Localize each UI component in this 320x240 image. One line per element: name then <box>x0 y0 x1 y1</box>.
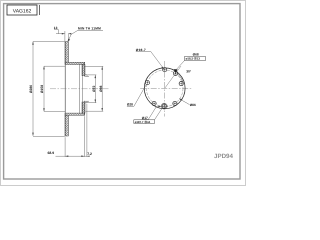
friction ring section, lower half (hatched) <box>65 115 68 136</box>
datum triangle marker <box>174 69 178 73</box>
friction ring section, upper half (hatched) <box>65 42 68 63</box>
svg-text:Ø86: Ø86 <box>190 103 196 107</box>
ring outer face edge, upper <box>67 42 69 63</box>
ring outer face edge, lower <box>67 115 69 136</box>
30 degree angle arc <box>177 74 183 83</box>
bolt circle (dashed) <box>146 70 183 107</box>
svg-text:Ø98: Ø98 <box>99 85 103 92</box>
mounting flange, upper (hatched) <box>82 65 85 76</box>
hat cylinder wall, lower (hatched) <box>65 113 85 115</box>
vertical centerline <box>164 61 166 117</box>
angled hole axis line <box>165 66 181 88</box>
svg-text:⌀187.7 Ⓝ44: ⌀187.7 Ⓝ44 <box>135 120 151 124</box>
horizontal centerline <box>140 88 191 90</box>
locating hole at 6 o'clock (double circle) <box>161 103 167 109</box>
feature control frame Ø187.7 with leader <box>134 108 163 124</box>
section axis centerline <box>50 88 109 90</box>
svg-text:Ø280: Ø280 <box>29 85 33 93</box>
dimension Ø98 hat inner diameter <box>85 66 103 111</box>
locating hole horizontal centerline <box>160 105 168 107</box>
drawing border frame <box>4 4 240 179</box>
svg-text:68.9: 68.9 <box>48 151 55 155</box>
svg-text:Ø28: Ø28 <box>127 103 133 107</box>
pilot step, upper <box>85 75 89 77</box>
bolt hole at 144 deg <box>173 101 177 105</box>
svg-text:30°: 30° <box>186 69 192 73</box>
label Ø98.7 bolt circle diameter with leader <box>136 48 164 70</box>
svg-text:⌀18.2 Ⓐ13: ⌀18.2 Ⓐ13 <box>186 57 201 61</box>
bolt hole at 288 deg <box>145 81 149 85</box>
svg-text:7.2: 7.2 <box>87 152 92 156</box>
page edge <box>1 1 246 186</box>
bolt hole at 216 deg <box>152 101 156 105</box>
pilot step, lower <box>85 101 89 103</box>
hat outer circle <box>144 68 185 109</box>
label Ø17 locating hole with leader <box>142 106 162 120</box>
hat cylinder wall, upper (hatched) <box>65 62 85 64</box>
svg-text:VAG162: VAG162 <box>13 9 32 15</box>
label Ø28 hole size with leader <box>127 85 146 107</box>
bolt hole at 72 deg <box>179 82 183 86</box>
svg-text:MIN TH 11MM: MIN TH 11MM <box>78 27 101 31</box>
label Ø68 with feature control frame and leader <box>177 52 206 69</box>
svg-text:13: 13 <box>54 26 58 30</box>
dimension Ø158 inner ring diameter <box>44 66 65 111</box>
label Ø86 hat diameter with leader <box>179 99 196 108</box>
dimension Ø72 pilot diameter <box>87 75 96 103</box>
dimension 68.9 overall height <box>56 116 90 157</box>
label MIN TH 11MM with leader <box>68 27 103 42</box>
bolt hole at 36 deg <box>173 71 177 75</box>
svg-text:Ø72: Ø72 <box>92 85 96 92</box>
hub bore edge lines <box>80 65 83 114</box>
dimension 13 disc thickness <box>54 30 68 42</box>
title block VAG162 <box>7 5 40 15</box>
disc inner face line <box>64 42 66 136</box>
svg-text:Ø98.7: Ø98.7 <box>136 48 146 52</box>
flange mounting face, upper <box>84 62 86 76</box>
dimension Ø280 outer diameter <box>33 42 65 137</box>
mounting flange, lower (hatched) <box>82 102 85 113</box>
hole center dots <box>147 69 182 106</box>
hole center cross ticks <box>146 68 183 108</box>
dimension 7.2 pilot protrusion <box>86 104 88 157</box>
svg-text:JPD94: JPD94 <box>214 153 233 160</box>
flange mounting face, lower <box>84 101 86 116</box>
svg-text:Ø158: Ø158 <box>40 85 44 93</box>
bolt hole at 12 o'clock <box>163 68 167 72</box>
